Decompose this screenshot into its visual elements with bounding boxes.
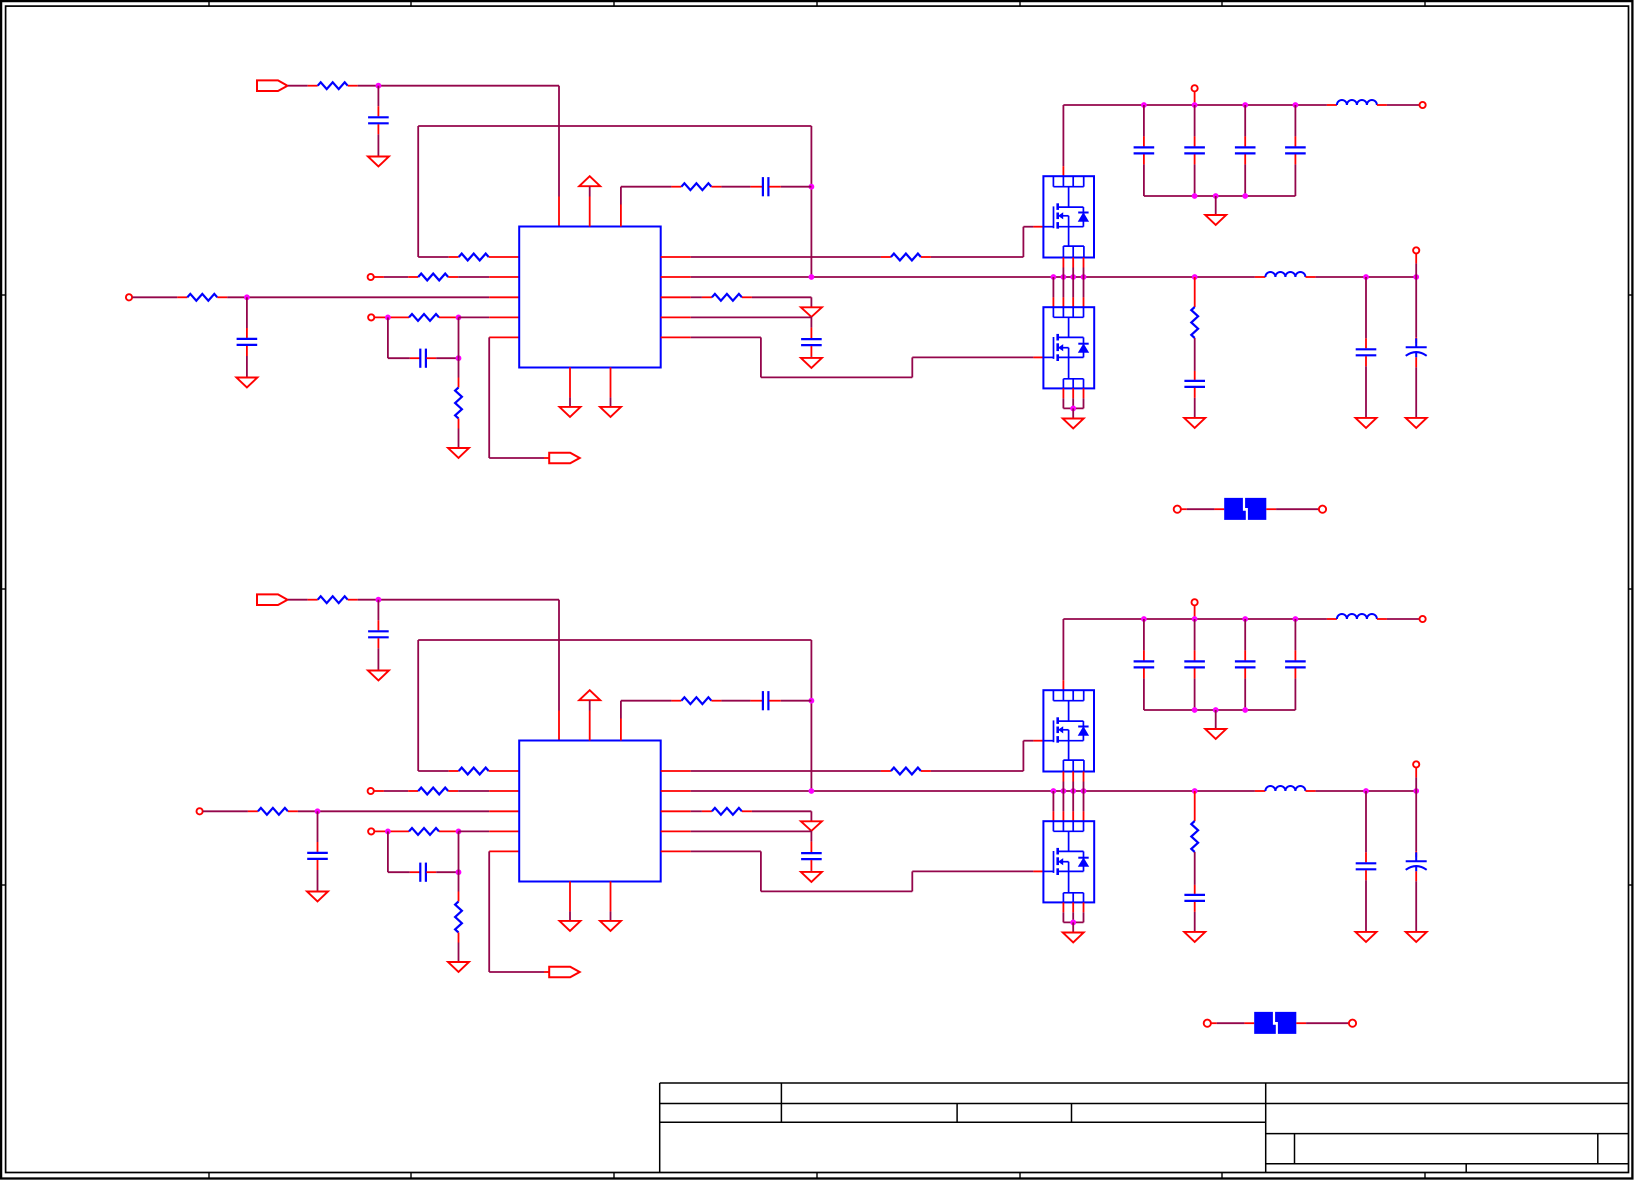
wire	[458, 429, 460, 449]
junction	[1192, 788, 1198, 794]
wire	[1194, 398, 1196, 418]
wire	[387, 831, 389, 872]
lead	[439, 830, 459, 832]
junction	[1141, 616, 1147, 622]
junction	[1081, 788, 1087, 794]
wire	[1194, 105, 1196, 136]
lead	[702, 810, 712, 812]
wire	[1083, 782, 1085, 792]
lead	[1244, 136, 1246, 146]
transistor Q1B	[1043, 690, 1094, 771]
wire	[691, 830, 812, 832]
pin stub	[489, 296, 519, 298]
lead	[1294, 154, 1296, 164]
wire	[1063, 407, 1083, 409]
lead	[348, 85, 358, 87]
junction	[1213, 193, 1219, 199]
lead	[1194, 277, 1196, 307]
wire	[459, 316, 490, 318]
lead	[377, 620, 379, 630]
ground	[1184, 932, 1205, 942]
wire loop top	[418, 125, 811, 127]
resistor R8B	[1191, 821, 1198, 852]
capacitor C4B	[762, 691, 764, 710]
junction	[1413, 274, 1419, 280]
junction	[385, 315, 391, 321]
wire	[558, 600, 560, 711]
wire	[246, 297, 248, 328]
lead	[448, 276, 458, 278]
wire loop left	[417, 126, 419, 257]
lead	[458, 419, 460, 429]
wire rail	[691, 276, 1255, 278]
lead	[1194, 92, 1196, 106]
resistor R9A	[712, 294, 742, 301]
wire	[691, 296, 702, 298]
lead	[1194, 668, 1196, 678]
lead	[1415, 851, 1417, 857]
pin stub	[489, 810, 519, 812]
wire	[1062, 619, 1064, 680]
lead	[317, 860, 319, 870]
lead	[1244, 1022, 1254, 1024]
wire	[317, 811, 319, 842]
wire	[1072, 277, 1074, 297]
resistor R7B	[891, 768, 921, 775]
resistor R5A	[455, 388, 462, 419]
wire rail	[691, 790, 1255, 792]
pin stub	[661, 276, 691, 278]
wire	[781, 186, 812, 188]
wire	[1062, 912, 1064, 922]
wire	[760, 337, 762, 377]
wire	[1187, 508, 1215, 510]
wire	[1365, 277, 1367, 338]
junction	[1363, 788, 1369, 794]
wire	[691, 336, 761, 338]
wire	[384, 276, 408, 278]
wire	[488, 337, 490, 458]
wire	[1083, 277, 1085, 297]
lead	[810, 842, 812, 853]
lead	[426, 357, 436, 359]
wire	[1143, 164, 1145, 196]
wire	[489, 457, 544, 459]
lead	[317, 842, 319, 852]
wire	[1194, 912, 1196, 932]
wire	[377, 134, 379, 156]
wire row1	[418, 770, 449, 772]
wire	[1415, 777, 1417, 791]
lead	[711, 186, 721, 188]
wire bus	[1063, 618, 1327, 620]
lead	[217, 296, 227, 298]
ground	[1184, 418, 1205, 428]
resistor R9B	[712, 808, 742, 815]
transistor Q1A	[1043, 176, 1094, 257]
pin stub	[1052, 297, 1054, 307]
wire	[1294, 619, 1296, 650]
ground	[448, 448, 469, 458]
terminal J3B (left input)	[197, 808, 203, 814]
wire	[760, 851, 762, 891]
wire	[721, 186, 750, 188]
lead	[750, 186, 762, 188]
lead	[1194, 136, 1196, 146]
junction	[456, 869, 462, 875]
lead	[1294, 668, 1296, 678]
wire	[1415, 263, 1417, 277]
pin stub	[1083, 297, 1085, 307]
pin stub	[1062, 388, 1064, 398]
wire	[1215, 196, 1217, 215]
pin stub	[1083, 388, 1085, 398]
ground	[1205, 215, 1226, 225]
wire	[489, 971, 544, 973]
pin stub	[1062, 258, 1064, 268]
lead	[1365, 852, 1367, 862]
wire	[436, 871, 458, 873]
junction	[1363, 274, 1369, 280]
ground	[1356, 418, 1377, 428]
pin stub	[1072, 388, 1074, 398]
wire	[752, 296, 812, 298]
wire	[911, 357, 913, 377]
resistor R2B	[459, 768, 489, 775]
capacitor C5B	[1184, 894, 1205, 896]
wire	[691, 850, 761, 852]
wire loop top	[418, 639, 811, 641]
wire	[810, 870, 812, 872]
resistor R3B	[418, 788, 448, 795]
lead	[1033, 870, 1043, 872]
lead	[458, 378, 460, 388]
capacitor (input) B	[1285, 660, 1306, 662]
lead	[1377, 618, 1387, 620]
wire	[721, 700, 750, 702]
wire	[589, 700, 591, 710]
wire	[1276, 508, 1319, 510]
pin stub	[1062, 811, 1064, 821]
lead	[1306, 790, 1316, 792]
capacitor (input) B	[1184, 660, 1205, 662]
lead	[671, 700, 681, 702]
pin stub	[569, 881, 571, 911]
lead	[1266, 508, 1276, 510]
pin stub	[661, 810, 691, 812]
wire	[1244, 164, 1246, 196]
capacitor C2B	[307, 852, 328, 854]
port OUTA	[549, 453, 580, 464]
capacitor C8B	[801, 852, 822, 854]
wire	[1083, 791, 1085, 811]
lead	[1194, 650, 1196, 660]
zone tick marks	[208, 1, 210, 6]
wire to U1 pin	[247, 296, 489, 298]
wire	[1365, 880, 1367, 932]
terminal J5B	[1413, 761, 1419, 767]
wire	[458, 790, 489, 792]
lead	[1415, 871, 1417, 881]
lead	[1415, 357, 1417, 367]
lead	[769, 700, 781, 702]
lead	[1294, 136, 1296, 146]
wire	[1294, 678, 1296, 710]
title block	[660, 1082, 1629, 1084]
lead	[1415, 254, 1417, 264]
wire	[358, 85, 559, 87]
wire	[388, 357, 410, 359]
wire	[459, 830, 490, 832]
capacitor C4A	[762, 177, 764, 196]
junction	[1192, 274, 1198, 280]
wire	[1023, 226, 1033, 228]
wire	[387, 317, 389, 358]
pin stub	[661, 336, 691, 338]
pin stub	[1062, 902, 1064, 912]
wire	[691, 316, 812, 318]
wire	[388, 871, 410, 873]
pin stub	[661, 256, 691, 258]
ground	[368, 671, 389, 681]
wire	[1072, 398, 1074, 408]
pin stub	[610, 367, 612, 397]
pin stub	[661, 770, 691, 772]
terminal J7B	[1192, 599, 1198, 605]
junction	[244, 294, 250, 300]
ground	[1406, 418, 1427, 428]
capacitor C1B	[368, 630, 389, 632]
capacitor C6B	[1356, 862, 1377, 864]
wire	[1306, 1022, 1349, 1024]
wire	[752, 810, 812, 812]
lead	[544, 971, 549, 973]
port INA	[257, 80, 288, 91]
lead	[750, 700, 762, 702]
wire	[912, 356, 1033, 358]
wire	[761, 890, 912, 892]
capacitor (input) B	[1235, 660, 1256, 662]
lead	[1033, 740, 1043, 742]
resistor R4B	[409, 828, 439, 835]
pin stub	[661, 830, 691, 832]
wire	[1062, 398, 1064, 408]
wire	[810, 831, 812, 842]
wire	[1415, 277, 1417, 337]
wire	[1062, 105, 1064, 166]
lead	[246, 328, 248, 338]
wire	[1144, 195, 1296, 197]
resistor R1B	[318, 596, 348, 603]
lead	[1194, 388, 1196, 398]
lead	[1211, 1022, 1217, 1024]
lead	[246, 346, 248, 356]
lead	[1244, 154, 1246, 164]
pin stub	[1062, 297, 1064, 307]
junction	[1061, 274, 1067, 280]
junction	[1192, 707, 1198, 713]
junction	[385, 829, 391, 835]
wire	[1143, 619, 1145, 650]
wire	[558, 86, 560, 197]
power symbol VCCB	[579, 690, 600, 700]
resistor R10B	[258, 808, 288, 815]
lead	[410, 871, 420, 873]
lead	[921, 256, 931, 258]
pin stub	[1083, 902, 1085, 912]
wire	[1415, 881, 1417, 932]
wire	[317, 870, 319, 892]
ground	[600, 921, 621, 931]
wire loop right	[810, 640, 812, 791]
lead	[1194, 154, 1196, 164]
terminal J4B	[368, 828, 374, 834]
lead	[288, 810, 298, 812]
pin stub row5	[489, 850, 519, 852]
pin stub	[1072, 902, 1074, 912]
wire	[1062, 268, 1064, 278]
lead	[702, 296, 712, 298]
pin stub	[589, 197, 591, 227]
ground	[801, 358, 822, 368]
wire	[1244, 619, 1246, 650]
wire	[1365, 791, 1367, 852]
power symbol VCCA	[579, 176, 600, 186]
transistor Q2A	[1043, 307, 1094, 388]
capacitor (input) B	[1134, 660, 1155, 662]
wire	[1022, 227, 1024, 257]
capacitor (input) A	[1285, 146, 1306, 148]
pin stub	[620, 205, 622, 227]
wire	[589, 186, 591, 196]
pin stub	[489, 790, 519, 792]
wire	[1194, 852, 1196, 885]
wire	[1052, 277, 1054, 297]
lead	[308, 85, 318, 87]
junction	[1070, 406, 1076, 412]
wire	[1062, 782, 1064, 792]
pin stub	[1083, 811, 1085, 821]
wire	[203, 810, 248, 812]
junction	[1081, 274, 1087, 280]
pin stub	[489, 830, 519, 832]
wire	[569, 911, 571, 921]
terminal J5A	[1413, 247, 1419, 253]
wire	[227, 296, 247, 298]
wire	[1083, 912, 1085, 922]
arrow symbol	[801, 821, 822, 831]
junction	[1070, 788, 1076, 794]
pin stub	[489, 316, 519, 318]
lead	[374, 830, 409, 832]
wire	[620, 701, 622, 719]
lead	[742, 296, 752, 298]
pin stub	[620, 719, 622, 741]
lead	[449, 770, 459, 772]
terminal J2B	[368, 788, 374, 794]
wire	[691, 770, 881, 772]
wire	[436, 357, 458, 359]
wire	[1023, 740, 1033, 742]
wire	[911, 871, 913, 891]
pin stub	[489, 770, 520, 772]
resistor R3A	[418, 274, 448, 281]
capacitor (input) A	[1235, 146, 1256, 148]
lead	[1327, 104, 1337, 106]
wire	[1062, 277, 1064, 297]
terminal J7A	[1192, 85, 1198, 91]
wire	[458, 317, 460, 358]
pin stub	[661, 296, 691, 298]
lead	[1194, 902, 1196, 912]
wire	[298, 810, 318, 812]
resistor R2A	[459, 254, 489, 261]
wire	[691, 256, 881, 258]
junction	[1293, 616, 1299, 622]
terminal J3A (left input)	[126, 294, 132, 300]
junction	[809, 698, 815, 704]
resistor R6A	[681, 183, 711, 190]
lead	[1255, 276, 1266, 278]
wire	[1143, 678, 1145, 710]
lead	[1255, 790, 1266, 792]
wire	[1244, 678, 1246, 710]
junction	[456, 315, 462, 321]
wire	[810, 356, 812, 358]
capacitor C3A	[419, 349, 421, 368]
wire	[1072, 268, 1074, 278]
junction	[376, 83, 382, 89]
wire	[1387, 104, 1420, 106]
lead	[810, 860, 812, 870]
wire	[1294, 164, 1296, 196]
pin stub row5	[489, 336, 519, 338]
lead	[671, 186, 681, 188]
wire	[458, 943, 460, 963]
wire	[288, 599, 308, 601]
junction	[809, 788, 815, 794]
lead	[448, 790, 458, 792]
lead	[248, 810, 258, 812]
wire	[1194, 678, 1196, 710]
junction	[1070, 274, 1076, 280]
wire	[1062, 791, 1064, 811]
wire	[377, 648, 379, 670]
resistor R6B	[681, 697, 711, 704]
lead	[1033, 356, 1043, 358]
lead	[1296, 1022, 1306, 1024]
junction	[1242, 193, 1248, 199]
lead	[1194, 885, 1196, 894]
wire	[761, 376, 912, 378]
terminal J2A	[368, 274, 374, 280]
terminal J6B	[1420, 616, 1426, 622]
pin stub	[1072, 297, 1074, 307]
lead	[308, 599, 318, 601]
wire	[1063, 921, 1083, 923]
IC U1B	[519, 741, 661, 882]
wire	[1316, 276, 1417, 278]
ground	[801, 872, 822, 882]
lead	[1365, 870, 1367, 880]
junction	[376, 597, 382, 603]
wire	[377, 86, 379, 107]
lead	[1365, 356, 1367, 366]
wire	[488, 851, 490, 972]
lead	[544, 457, 549, 459]
IC U1A	[519, 227, 661, 368]
polarized capacitor C7B	[1406, 860, 1427, 862]
